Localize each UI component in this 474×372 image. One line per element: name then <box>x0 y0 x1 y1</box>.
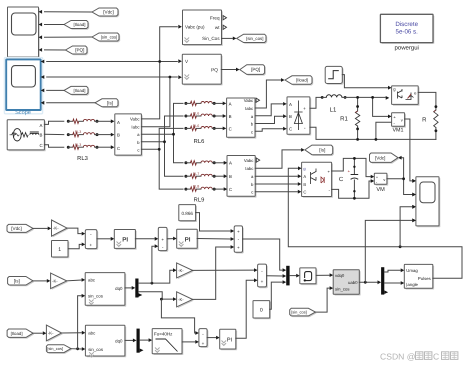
svg-text:RL3: RL3 <box>77 155 88 162</box>
svg-text:Freq: Freq <box>210 15 220 20</box>
svg-text:-K-: -K- <box>53 226 59 231</box>
svg-text:R1: R1 <box>340 116 348 123</box>
svg-text:[sin_cos]: [sin_cos] <box>291 310 307 315</box>
svg-text:Pulses: Pulses <box>418 276 431 281</box>
svg-text:[sin_cos]: [sin_cos] <box>246 36 263 41</box>
svg-text:[Iload]: [Iload] <box>11 331 23 336</box>
svg-text:Scope: Scope <box>15 110 31 116</box>
svg-text:B: B <box>229 174 232 179</box>
svg-text:[Iload]: [Iload] <box>74 22 86 27</box>
svg-text:+: + <box>89 243 92 248</box>
svg-text:PQ: PQ <box>211 68 218 74</box>
svg-text:PI: PI <box>227 337 233 343</box>
svg-text:[Is]: [Is] <box>107 101 113 106</box>
svg-text:Discrete: Discrete <box>395 21 418 28</box>
svg-text:C: C <box>117 146 120 151</box>
svg-text:B: B <box>117 133 120 138</box>
svg-text:[Vdc]: [Vdc] <box>375 155 385 160</box>
svg-text:+: + <box>161 237 164 242</box>
svg-text:RL7: RL7 <box>193 172 200 176</box>
svg-text:v: v <box>383 178 385 182</box>
svg-text:B: B <box>289 114 292 119</box>
svg-text:v: v <box>401 118 403 123</box>
svg-text:C: C <box>229 126 232 131</box>
svg-text:B: B <box>40 133 43 138</box>
svg-text:[sin_cos]: [sin_cos] <box>101 35 118 40</box>
svg-text:B: B <box>303 182 306 187</box>
svg-text:L1: L1 <box>330 107 337 114</box>
svg-text:Iabc: Iabc <box>131 125 140 130</box>
svg-text:Vabc (pu): Vabc (pu) <box>185 25 205 30</box>
svg-text:powergui: powergui <box>395 45 419 52</box>
svg-text:RL6: RL6 <box>193 124 200 128</box>
svg-text:A: A <box>303 174 306 179</box>
svg-text:RL3: RL3 <box>75 143 82 147</box>
svg-text:B: B <box>229 114 232 119</box>
svg-text:CSDN @: CSDN @ <box>380 352 415 362</box>
svg-text:[Iload]: [Iload] <box>74 88 86 93</box>
svg-text:abc: abc <box>88 278 96 283</box>
svg-text:Fo=40Hz: Fo=40Hz <box>154 331 173 336</box>
svg-text:Vabc: Vabc <box>244 98 254 103</box>
svg-text:PI: PI <box>185 237 191 244</box>
svg-text:A: A <box>229 161 232 166</box>
svg-text:1: 1 <box>58 247 61 253</box>
svg-text:abc: abc <box>88 331 96 336</box>
svg-text:RL3: RL3 <box>75 130 82 134</box>
svg-text:C: C <box>339 176 344 183</box>
svg-text:|angle: |angle <box>406 282 418 287</box>
svg-text:-K-: -K- <box>178 297 184 302</box>
svg-text:vdq0: vdq0 <box>335 273 345 278</box>
svg-text:C: C <box>433 352 439 362</box>
svg-text:Vabc: Vabc <box>244 158 254 163</box>
svg-text:Sin_Cos: Sin_Cos <box>202 36 220 41</box>
svg-text:+: + <box>202 341 205 346</box>
svg-text:C: C <box>40 143 43 148</box>
svg-text:0.866: 0.866 <box>181 211 193 216</box>
svg-text:C: C <box>303 190 306 195</box>
svg-text:RL6: RL6 <box>193 112 200 116</box>
svg-text:C: C <box>289 127 292 132</box>
svg-text:[Is]: [Is] <box>319 148 325 153</box>
svg-text:-: - <box>304 126 306 132</box>
svg-text:Iabc: Iabc <box>245 106 254 111</box>
svg-text:Umag: Umag <box>406 268 418 273</box>
svg-text:VM1: VM1 <box>392 128 403 134</box>
svg-text:A: A <box>40 123 43 128</box>
svg-text:-K-: -K- <box>178 268 184 273</box>
svg-text:[PQ]: [PQ] <box>75 48 84 53</box>
svg-text:PI: PI <box>122 237 128 244</box>
svg-text:[PQ]: [PQ] <box>251 67 260 72</box>
svg-text:R: R <box>422 116 427 123</box>
svg-text:dq0: dq0 <box>115 338 123 343</box>
svg-text:-K-: -K- <box>52 279 58 284</box>
svg-text:0: 0 <box>260 308 263 314</box>
svg-text:dq0: dq0 <box>115 286 123 291</box>
svg-text:RL6: RL6 <box>194 138 205 145</box>
svg-text:wt: wt <box>215 25 220 30</box>
svg-text:[Iload]: [Iload] <box>296 78 308 83</box>
svg-text:A: A <box>117 120 120 125</box>
svg-text:[Is]: [Is] <box>14 278 20 283</box>
svg-text:+: + <box>303 106 306 111</box>
svg-text:[Vdc]: [Vdc] <box>103 10 113 15</box>
svg-text:[Vdc]: [Vdc] <box>11 226 21 231</box>
svg-text:+: + <box>261 279 264 284</box>
svg-text:RL9: RL9 <box>194 196 205 203</box>
svg-text:RL8: RL8 <box>193 185 200 189</box>
svg-text:Vabc: Vabc <box>130 117 140 122</box>
svg-text:sin_cos: sin_cos <box>335 286 350 291</box>
svg-text:g: g <box>303 166 305 171</box>
svg-text:sin_cos: sin_cos <box>88 294 104 299</box>
svg-text:+: + <box>237 229 240 234</box>
svg-text:Iabc: Iabc <box>245 166 254 171</box>
svg-text:[sin_cos]: [sin_cos] <box>47 346 63 351</box>
svg-text:sin_cos: sin_cos <box>88 347 104 352</box>
svg-text:uab0: uab0 <box>348 280 358 285</box>
svg-text:5e-06 s.: 5e-06 s. <box>396 29 419 36</box>
svg-text:C: C <box>229 187 232 192</box>
svg-text:+: + <box>237 245 240 250</box>
svg-text:A: A <box>289 102 292 107</box>
svg-text:VM: VM <box>376 187 385 193</box>
svg-text:-K-: -K- <box>48 331 54 336</box>
svg-text:A: A <box>229 102 232 107</box>
